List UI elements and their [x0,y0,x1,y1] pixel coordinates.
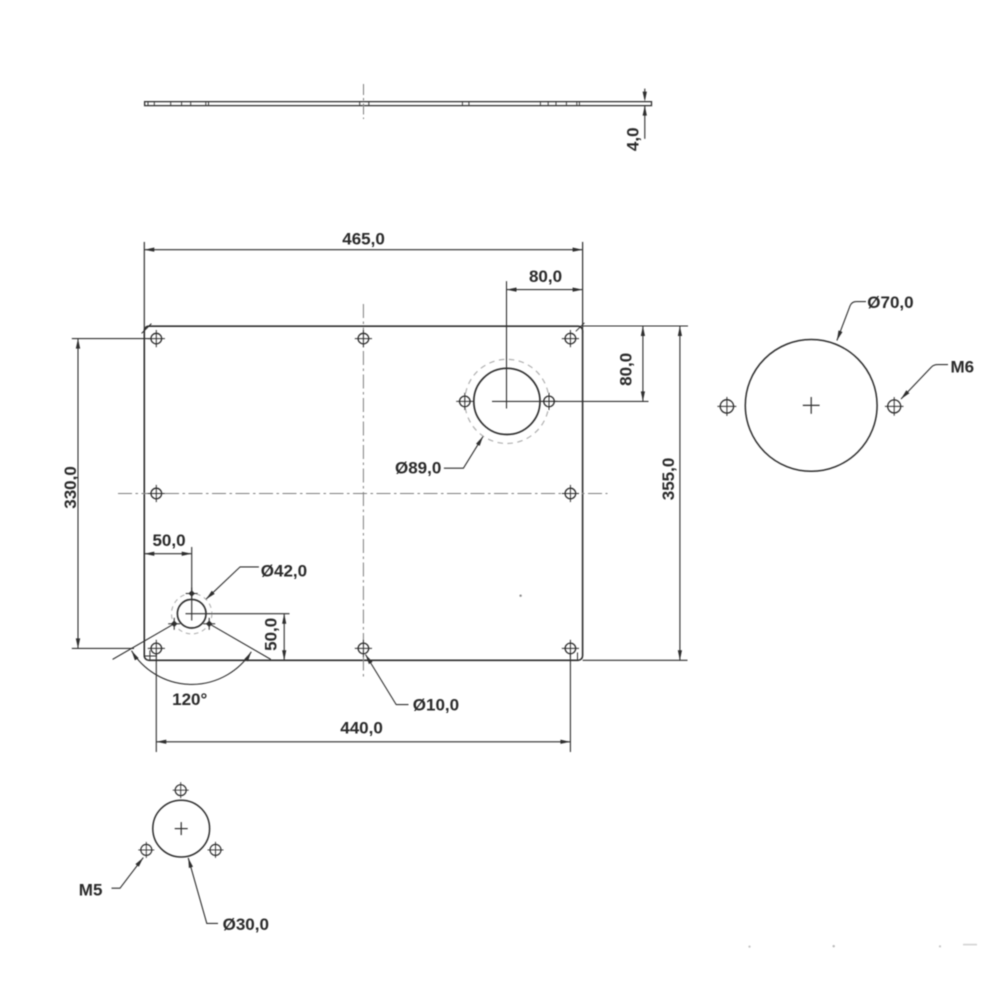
horizontal centerline [118,493,608,495]
hole Ø10 top-right [565,333,576,344]
svg-text:Ø89,0: Ø89,0 [395,458,441,477]
dimension 50,0 vertical line [283,614,285,661]
dimension 80,0 top line [507,289,583,291]
leader M6 line [901,365,948,399]
hole Ø70 vertical centerline [506,281,508,408]
leader Ø10 line [366,655,409,705]
side view centerline [363,84,365,119]
faint speck row [748,946,750,948]
dimension 80,0 right line [642,326,644,401]
dimension 440,0 line [156,741,570,743]
svg-text:120°: 120° [172,690,207,709]
hole Ø70 main view [474,368,540,434]
detail Ø70 center cross [803,404,820,406]
detail M5 hole top [175,785,186,796]
hole Ø30 vertical centerline [191,547,193,621]
dimension 50,0 horizontal line [144,553,191,555]
dimension 465,0 line [144,249,582,251]
svg-text:80,0: 80,0 [529,267,562,286]
bolt circle Ø42 dashed [172,594,212,634]
detail M5 hole lower-right [210,844,221,855]
svg-text:50,0: 50,0 [261,618,280,651]
detail M6 hole right [888,400,901,413]
dimension 4,0 lower arrow [644,106,646,139]
leader Ø30 line [188,858,218,924]
hole Ø10 middle-left [151,488,162,499]
dimension 330,0 extension lines [72,338,151,340]
detail hole Ø30 circle [153,800,210,857]
svg-text:465,0: 465,0 [342,229,385,248]
svg-text:330,0: 330,0 [61,466,80,509]
M5 hole lower-left main view [171,621,178,628]
top edge extension line [583,325,688,327]
dimension 330,0 line [77,339,79,649]
side view plate outline [145,102,652,106]
angle 120 left leg [113,623,176,659]
main plate outline [144,326,582,660]
svg-text:80,0: 80,0 [616,353,635,386]
leader Ø70 line [837,302,866,341]
svg-text:355,0: 355,0 [659,458,678,501]
bolt circle Ø89 dashed [465,359,549,443]
angle 120 right leg [208,623,271,659]
dimension 355,0 line [679,326,681,660]
detail M5 hole lower-left [141,844,152,855]
hole Ø10 bottom-right [565,643,576,654]
hole Ø10 bottom-middle [358,643,369,654]
hole Ø10 top-left [151,333,162,344]
detail Ø30 center cross [175,828,188,830]
bottom-left corner ticks [149,650,151,660]
svg-text:M6: M6 [951,358,975,377]
dimension 465,0 extension lines [143,242,145,333]
hole Ø30 horizontal centerline [186,613,290,615]
leader M5 line [112,858,144,889]
svg-text:Ø30,0: Ø30,0 [223,915,269,934]
svg-text:Ø10,0: Ø10,0 [413,695,459,714]
hole Ø10 bottom-left [151,643,162,654]
svg-text:4,0: 4,0 [623,127,642,151]
svg-text:440,0: 440,0 [340,718,383,737]
hole Ø10 middle-right [565,488,576,499]
detail M6 hole left [720,400,733,413]
M5 hole top main view [188,590,195,597]
side view hidden hole ticks [147,102,149,105]
leader Ø89 line [444,436,483,468]
svg-text:50,0: 50,0 [152,531,185,550]
svg-text:Ø70,0: Ø70,0 [867,293,913,312]
top-right corner tick [576,323,585,331]
bottom edge extension line [583,659,688,661]
detail hole Ø70 circle [745,340,877,472]
bottom-right corner tick [577,653,579,661]
hole Ø70 horizontal centerline [492,400,649,402]
small dot mark [519,595,521,597]
svg-text:Ø42,0: Ø42,0 [261,561,307,580]
top-left corner tick [142,324,152,334]
leader Ø42 line [206,567,259,599]
dimension 4,0 upper arrow [644,89,646,94]
M6 hole left main view [460,396,471,407]
svg-text:M5: M5 [79,881,103,900]
angle 120 arc [132,651,252,685]
dimension 440,0 extension lines [155,654,157,752]
M6 hole right main view [544,396,555,407]
hole Ø10 top-middle [358,333,369,344]
vertical centerline [362,304,364,678]
M5 hole lower-right main view [206,621,213,628]
hole Ø30 main view [177,599,206,628]
